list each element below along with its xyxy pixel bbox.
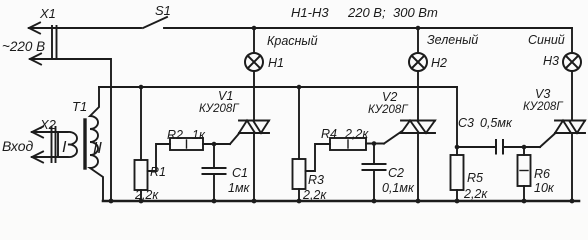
node junction C3 left [455, 145, 460, 150]
connector X1 arrow pin 2 [30, 54, 41, 65]
winding II (secondary) [90, 87, 103, 201]
svg-text:С1: С1 [232, 166, 248, 180]
svg-text:2,2к: 2,2к [134, 188, 159, 202]
resistor R1 2.2k [135, 87, 148, 201]
wire corner down to H3 [571, 28, 573, 53]
core [83, 120, 86, 168]
svg-text:1к: 1к [192, 128, 206, 142]
lamp H2 [409, 28, 427, 121]
svg-text:1мк: 1мк [228, 181, 251, 195]
node junction C2 / V2 gate [372, 141, 377, 146]
svg-text:X2: X2 [39, 117, 57, 132]
svg-text:Н1-Н3: Н1-Н3 [291, 5, 329, 20]
wire V1 gate diagonal [230, 133, 240, 144]
svg-text:С3: С3 [458, 116, 474, 130]
triac V1 KU208G [239, 121, 269, 202]
svg-text:V1: V1 [218, 89, 233, 103]
winding I (primary) [58, 132, 77, 157]
svg-text:Н1: Н1 [268, 56, 284, 70]
svg-text:0,1мк: 0,1мк [382, 181, 415, 195]
connector X2 arrow pin 2 [32, 152, 43, 163]
wire X1 pin1 to S1 [29, 27, 141, 29]
node junction R3 tap [297, 85, 302, 90]
svg-text:КУ208Г: КУ208Г [368, 104, 408, 116]
svg-text:X1: X1 [39, 6, 56, 21]
svg-text:~220 В: ~220 В [2, 39, 45, 54]
resistor R3 2.2k [293, 87, 306, 201]
connector X2 arrow pin 1 [32, 127, 43, 138]
lamp H1 [245, 28, 263, 121]
svg-text:2,2к: 2,2к [302, 188, 327, 202]
node junction R6 / V3 gate [522, 145, 527, 150]
svg-text:R2: R2 [167, 128, 183, 142]
svg-text:R4: R4 [321, 127, 337, 141]
svg-text:КУ208Г: КУ208Г [199, 103, 239, 115]
triac V3 KU208G [555, 121, 585, 202]
wire signal bus from T1 secondary [99, 86, 457, 88]
svg-text:II: II [93, 140, 102, 157]
resistor R4 2.2k [306, 138, 385, 171]
svg-text:300 Вт: 300 Вт [393, 5, 438, 20]
resistor R5 2.2k [451, 155, 464, 201]
wires X2 to winding I [32, 132, 58, 157]
capacitor C1 1uF [203, 144, 226, 201]
svg-text:V2: V2 [382, 90, 397, 104]
svg-text:Т1: Т1 [72, 99, 87, 114]
svg-text:V3: V3 [535, 87, 550, 101]
connector X2 mating ticks [52, 127, 56, 162]
bottom common bus [103, 200, 579, 203]
svg-text:Н2: Н2 [431, 56, 447, 70]
node junction C1 / V1 gate [212, 142, 217, 147]
svg-text:I: I [62, 139, 67, 156]
svg-text:R1: R1 [150, 165, 166, 179]
wire X1 pin2 to bottom bus [30, 59, 111, 201]
node junction R1 tap [139, 85, 144, 90]
svg-text:220 В;: 220 В; [347, 5, 386, 20]
lamp H3 [563, 53, 581, 121]
svg-text:2,2к: 2,2к [463, 187, 488, 201]
svg-text:R6: R6 [534, 167, 550, 181]
svg-text:R5: R5 [467, 171, 483, 185]
svg-text:Вход: Вход [2, 138, 34, 154]
svg-text:С2: С2 [388, 166, 404, 180]
wire V3 gate diagonal [540, 133, 556, 147]
triac V2 KU208G [401, 121, 435, 202]
node junction H2 tap [416, 26, 421, 31]
node junction H1 tap [252, 26, 257, 31]
svg-text:2,2к: 2,2к [344, 127, 369, 141]
wire signal bus corner down to R5 [456, 87, 458, 155]
resistor R6 10k [518, 147, 531, 201]
svg-text:Н3: Н3 [543, 54, 559, 68]
resistor R2 1k [148, 138, 231, 171]
svg-text:0,5мк: 0,5мк [480, 116, 513, 130]
switch S1 [143, 17, 167, 28]
svg-text:КУ208Г: КУ208Г [523, 101, 563, 113]
capacitor C3 0.5uF [457, 140, 540, 154]
connector X1 mating ticks [52, 26, 57, 59]
wire S1 to lamp bus [164, 27, 572, 29]
transformer T1 [58, 87, 103, 201]
wire V2 gate diagonal [384, 132, 402, 144]
svg-text:10к: 10к [534, 181, 555, 195]
svg-text:Зеленый: Зеленый [427, 33, 478, 47]
junction dots on bottom bus [109, 199, 575, 204]
svg-text:Красный: Красный [267, 34, 318, 48]
svg-text:Синий: Синий [528, 33, 565, 47]
capacitor C2 0.1uF [363, 144, 386, 202]
svg-text:S1: S1 [155, 3, 171, 18]
svg-text:R3: R3 [308, 173, 324, 187]
connector X1 arrow pin 1 [29, 23, 40, 34]
